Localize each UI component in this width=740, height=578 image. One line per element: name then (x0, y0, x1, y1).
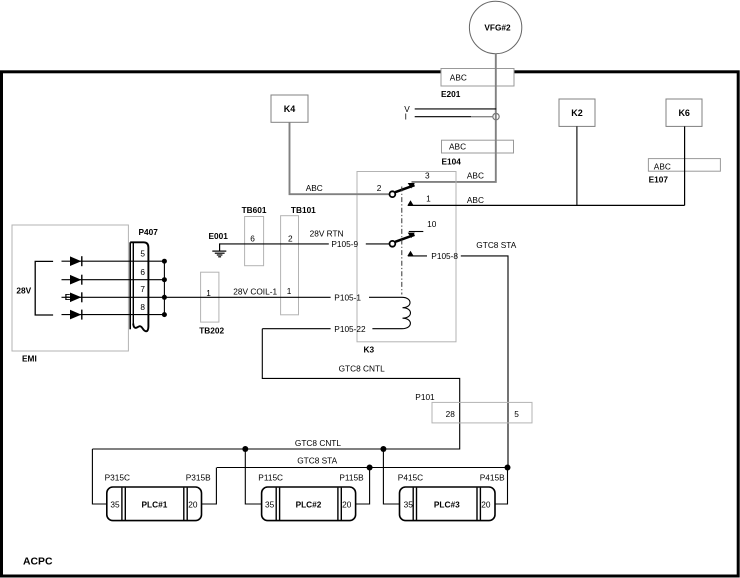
svg-text:PLC#1: PLC#1 (141, 500, 167, 510)
svg-text:8: 8 (140, 302, 145, 312)
pin 10 stub (409, 231, 424, 233)
relay K6 (666, 99, 702, 126)
K3 contact A blade (395, 185, 414, 192)
svg-text:2: 2 (288, 234, 293, 244)
svg-text:ABC: ABC (306, 183, 323, 193)
svg-text:GTC8 STA: GTC8 STA (297, 455, 337, 465)
PLC#3 (400, 487, 496, 521)
terminal block TB601 (242, 205, 267, 266)
svg-text:P415B: P415B (480, 473, 505, 483)
svg-text:ABC: ABC (654, 161, 671, 171)
wire PLC#2 pin35 (245, 449, 261, 504)
svg-text:7: 7 (140, 284, 145, 294)
junction tap circle on VFG line (493, 113, 499, 119)
svg-text:PLC#2: PLC#2 (296, 500, 322, 510)
wire 28V COIL-1 row (164, 296, 330, 298)
svg-text:E001: E001 (209, 231, 229, 241)
wire diode row 5 (62, 260, 165, 262)
terminal block TB202 (199, 272, 224, 335)
svg-text:P105-1: P105-1 (334, 292, 361, 302)
relay K2 (559, 99, 595, 126)
svg-text:E104: E104 (442, 157, 462, 167)
svg-text:P105-9: P105-9 (331, 239, 358, 249)
wire K4 drop to contact 2 (gray path) (290, 122, 390, 194)
relay K4 (271, 95, 308, 122)
wire K6 drop (684, 126, 686, 205)
EMI filter box (12, 225, 128, 351)
svg-text:10: 10 (427, 219, 437, 229)
svg-text:E107: E107 (649, 174, 669, 184)
wire row1 ABC to K2/K6 (408, 204, 685, 206)
svg-text:P415C: P415C (398, 473, 423, 483)
svg-text:20: 20 (342, 500, 352, 510)
relay K3 outline box (357, 172, 456, 342)
svg-text:20: 20 (481, 500, 491, 510)
diode CR2 (70, 275, 82, 285)
connector E107 (648, 159, 720, 185)
wire P105-1 to coil (369, 296, 402, 298)
svg-text:P101: P101 (415, 392, 435, 402)
pin 1 normally-closed arrow (407, 200, 413, 205)
svg-text:ABC: ABC (467, 171, 484, 181)
diode CR1 (70, 256, 82, 266)
wire VFG#2 drop to contact 3 (gray path) (412, 54, 496, 182)
svg-text:E201: E201 (441, 89, 461, 99)
wire PLC#3 pin20 (495, 468, 508, 505)
svg-text:6: 6 (250, 234, 255, 244)
svg-text:5: 5 (140, 248, 145, 258)
svg-text:28V RTN: 28V RTN (310, 229, 344, 239)
svg-text:1: 1 (287, 286, 292, 296)
svg-text:35: 35 (265, 500, 275, 510)
svg-text:ABC: ABC (450, 73, 467, 83)
svg-text:P115C: P115C (258, 473, 283, 483)
wire P105-22 row (262, 328, 330, 330)
svg-text:ACPC: ACPC (23, 557, 53, 568)
wire PLC#3 pin35 (383, 449, 399, 504)
K3 contact B arrowhead (pin 10) (408, 233, 415, 239)
svg-text:3: 3 (425, 170, 430, 180)
terminal block TB101 (281, 205, 317, 315)
diode CR3 (70, 292, 82, 302)
svg-text:20: 20 (188, 500, 198, 510)
svg-text:1: 1 (206, 288, 211, 298)
svg-text:GTC8 CNTL: GTC8 CNTL (295, 438, 341, 448)
P105-8 normally-closed arrow (407, 251, 413, 256)
wire P105-8 stub (408, 255, 427, 257)
connector E201 (441, 69, 514, 100)
wire P105-9 to contact (366, 243, 390, 245)
svg-text:TB101: TB101 (291, 205, 316, 215)
diode CR4 (70, 310, 82, 320)
svg-text:P105-8: P105-8 (431, 251, 458, 261)
svg-text:28V COIL-1: 28V COIL-1 (233, 286, 277, 296)
wire K2 drop (576, 126, 578, 205)
generator VFG#2 (469, 1, 521, 53)
K3 contact B pivot circle (P105-9) (390, 241, 396, 247)
junction dot STA/PLC2 (367, 465, 373, 471)
svg-text:K2: K2 (571, 108, 583, 118)
svg-text:2: 2 (377, 183, 382, 193)
junction dot CNTL/PLC3 (380, 446, 386, 452)
svg-text:35: 35 (404, 500, 414, 510)
svg-text:EMI: EMI (22, 354, 37, 364)
connector E104 (442, 140, 514, 166)
wire diode row 8 (62, 314, 165, 316)
ground E001 (209, 231, 229, 257)
svg-text:K3: K3 (364, 345, 375, 355)
svg-text:GTC8 CNTL: GTC8 CNTL (339, 364, 385, 374)
svg-text:I: I (405, 112, 407, 122)
svg-text:ABC: ABC (449, 142, 466, 152)
svg-text:P315B: P315B (186, 473, 211, 483)
junction dot STA/PLC3 (505, 465, 511, 471)
K3 contact A arrowhead (pin 3) (408, 183, 415, 189)
svg-text:P105-22: P105-22 (334, 324, 366, 334)
wire GTC8 STA (461, 256, 508, 468)
svg-text:K4: K4 (284, 104, 296, 114)
wire GTC8 STA bus (217, 467, 508, 469)
wire junction bus at P407 (163, 261, 165, 314)
wire PLC#2 pin20 (356, 468, 370, 505)
svg-text:P315C: P315C (105, 473, 130, 483)
junction dot row8 (162, 312, 167, 317)
wire GTC8 CNTL from P105-22 (92, 329, 459, 449)
svg-text:PLC#3: PLC#3 (434, 500, 460, 510)
svg-text:5: 5 (514, 409, 519, 419)
svg-text:1: 1 (426, 193, 431, 203)
wire 28V RTN row (219, 243, 329, 245)
wire PLC#1 pin20 (202, 468, 217, 505)
svg-text:35: 35 (110, 500, 120, 510)
connector P407 (130, 227, 158, 331)
PLC#2 (262, 487, 356, 521)
K3 contact A pivot circle (pin 2) (390, 191, 396, 197)
junction dot CNTL/PLC2 (242, 446, 248, 452)
PLC#1 (107, 487, 202, 521)
junction dot row5 (162, 259, 167, 264)
svg-text:28V: 28V (16, 286, 31, 296)
svg-text:P115B: P115B (339, 473, 364, 483)
wire P105-22 to coil (372, 328, 402, 330)
junction dot row7 (162, 295, 167, 300)
K3 coil (402, 297, 410, 328)
svg-text:ABC: ABC (467, 195, 484, 205)
node V (404, 104, 496, 114)
svg-text:VFG#2: VFG#2 (484, 22, 511, 32)
connector P101 (415, 392, 532, 423)
node I (405, 112, 493, 122)
wire PLC#1 pin35 (92, 449, 106, 504)
28V bracket (35, 261, 53, 315)
svg-text:28: 28 (446, 409, 456, 419)
svg-text:TB202: TB202 (199, 326, 224, 336)
svg-text:GTC8 STA: GTC8 STA (476, 240, 516, 250)
svg-text:TB601: TB601 (242, 205, 267, 215)
wire diode row 7 (62, 296, 165, 298)
svg-text:K6: K6 (678, 108, 690, 118)
svg-text:P407: P407 (139, 227, 159, 237)
wire diode row 6 (62, 279, 165, 281)
K3 dash-dot linkage line (401, 187, 403, 295)
junction dot row6 (162, 277, 167, 282)
K3 contact B blade (395, 235, 414, 242)
svg-text:6: 6 (140, 267, 145, 277)
